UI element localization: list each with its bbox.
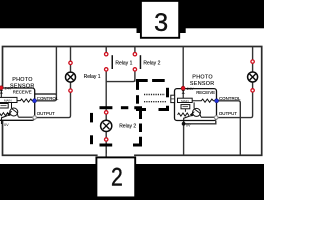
light beam dotted lines into receiver (144, 95, 166, 102)
relay2 contact K2 (133, 53, 141, 72)
terminal node above L1 (69, 61, 72, 64)
PS2 wire MID to zigzag (184, 109, 186, 112)
svg-text:Relay 1: Relay 1 (84, 74, 101, 80)
PS2 CONTROL pin node (blue) (215, 99, 219, 103)
svg-text:MAIN: MAIN (181, 99, 189, 103)
svg-text:RECEIVE: RECEIVE (196, 90, 215, 95)
PS2 emitter wire to 0V pin (184, 116, 190, 124)
PS1 bowtie polarity mark under 24V pin (0, 90, 3, 94)
terminal node below L3 (251, 89, 254, 92)
PS1 resistor MAIN to CONTROL (17, 99, 35, 102)
PS2 resistor MAIN to CONTROL (192, 99, 216, 102)
svg-text:OUTPUT: OUTPUT (219, 111, 237, 116)
junction node: sensor2 0V (182, 122, 186, 126)
PS1 emitter arrowhead (7, 113, 11, 116)
PS2 OUTPUT pin node (grey) (214, 116, 218, 120)
PS1 emitter wire to 0V pin (2, 116, 8, 124)
PS1 MID block (0, 104, 8, 109)
wire: sensor1 CONTROL to top rail (35, 47, 57, 101)
terminal node above L2 (105, 111, 108, 114)
lamp (relay2 coil) L2 (101, 120, 112, 131)
svg-text:Relay 2: Relay 2 (143, 61, 160, 67)
relay1 contact K1 (105, 53, 114, 72)
dashed highlight box around light beam area (138, 81, 168, 110)
PS1 OUTPUT pin node (grey) (33, 116, 37, 120)
lamp L3 (right) (248, 72, 258, 82)
wire: relay1 contact branch from top rail (105, 47, 107, 82)
PS2 receiver lens tab (171, 95, 175, 102)
PS1 CONTROL pin node (blue) (33, 99, 37, 103)
top black banner (0, 0, 264, 33)
PS2 MID block (181, 105, 190, 109)
bottom black banner (0, 164, 264, 200)
svg-text:SENSOR: SENSOR (190, 81, 215, 87)
svg-text:Relay 1: Relay 1 (115, 60, 132, 66)
svg-text:CONTROL: CONTROL (219, 96, 241, 101)
wire: lamp1 branch (top rail to relay1 coil to sensor1 OUTPUT) (35, 47, 71, 118)
svg-text:RECEIVE: RECEIVE (13, 90, 32, 95)
photo sensor PS2 (right) (171, 75, 241, 128)
PS2 emitter resistor zigzag (178, 113, 190, 116)
wire: relay2 contact branch from top rail (134, 47, 136, 82)
svg-text:2: 2 (111, 164, 123, 192)
PS1 24V pin node (red) (0, 86, 3, 90)
svg-text:0V: 0V (4, 123, 9, 127)
svg-text:MAIN: MAIN (4, 99, 12, 103)
svg-text:PHOTO: PHOTO (192, 75, 213, 81)
callout box 3 (141, 1, 179, 38)
label Relay 2 (contact) (143, 61, 160, 67)
PS1 collector wire to OUTPUT pin (18, 116, 34, 118)
PS2 MAIN block (178, 98, 193, 102)
svg-text:24V: 24V (187, 87, 194, 91)
svg-text:24V: 24V (5, 86, 12, 90)
callout box 2 (96, 150, 135, 197)
wire: sensor2 24V drop from top rail (182, 47, 184, 89)
lamp (relay1 coil) L1 (66, 72, 76, 82)
wire: sensor2 CONTROL to bottom rail (217, 101, 241, 156)
PS2 emitter arrowhead (190, 113, 194, 116)
label Relay 1 (coil) (84, 74, 101, 80)
svg-text:0V: 0V (186, 123, 191, 127)
wire: lamp2 branch (top rail to sensor2 OUTPUT) (216, 47, 252, 118)
wire: sensor2 0V to bottom rail with loop back (184, 121, 216, 156)
wire: junction joining both contact bottoms and relay2 coil drop (106, 80, 135, 156)
svg-text:PHOTO: PHOTO (12, 77, 33, 83)
schematic frame / power rails (3, 47, 262, 156)
dashed highlight box around relay2 coil (92, 108, 141, 145)
svg-text:OUTPUT: OUTPUT (37, 111, 55, 116)
photo sensor PS1 (left, clipped at image edge) (0, 77, 59, 127)
terminal node below L2 (105, 138, 108, 141)
PS2 bowtie polarity mark under 24V pin (182, 90, 186, 94)
svg-text:CONTROL: CONTROL (37, 96, 59, 101)
label Relay 2 (coil) (119, 124, 136, 130)
PS1 wire 24V pin to MAIN (0, 88, 2, 98)
label Relay 1 (contact) (115, 60, 132, 66)
terminal node below L1 (69, 89, 72, 92)
svg-text:Relay 2: Relay 2 (119, 124, 136, 130)
PS2 outer box (175, 89, 217, 121)
PS2 wire 24V pin to MAIN (182, 89, 184, 99)
svg-text:3: 3 (154, 9, 168, 37)
PS2 collector wire to OUTPUT pin (201, 116, 216, 118)
PS1 outer box (0, 88, 35, 120)
terminal node above L3 (251, 60, 254, 63)
svg-text:SENSOR: SENSOR (10, 83, 35, 89)
PS1 emitter resistor zigzag (0, 113, 10, 116)
PS2 24V pin node (red) (181, 86, 185, 90)
PS1 MAIN block (0, 97, 17, 102)
PS1 transistor Q (10, 108, 18, 116)
PS2 transistor Q (193, 108, 201, 116)
